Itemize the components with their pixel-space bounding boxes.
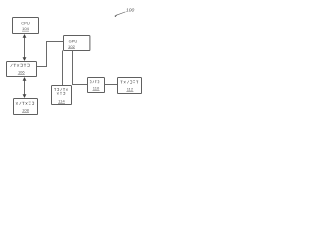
wire A-C double arrow — [23, 34, 27, 61]
wire C-B — [37, 42, 64, 67]
svg-text:114: 114 — [58, 98, 65, 103]
wire B-F — [73, 51, 88, 85]
wire B-E — [62, 51, 64, 86]
box D : main memory 108 — [14, 99, 38, 115]
wire F-G — [105, 84, 118, 86]
svg-text:102: 102 — [68, 44, 75, 49]
box A : CPU 104 — [13, 18, 39, 34]
svg-text:106: 106 — [18, 70, 25, 75]
svg-text:110: 110 — [93, 85, 100, 90]
svg-text:100: 100 — [126, 7, 134, 13]
svg-text:CPU: CPU — [21, 21, 30, 26]
box C : northbridge 106 — [7, 62, 37, 77]
svg-text:112: 112 — [127, 86, 134, 91]
box G : display 112 — [118, 78, 142, 94]
svg-text:108: 108 — [22, 108, 29, 113]
label 100 with lead arrow — [114, 7, 134, 17]
box E : texture memory 114 — [52, 86, 72, 105]
wire C-D double arrow — [23, 77, 27, 98]
box F : battery 110 — [88, 78, 105, 93]
svg-text:104: 104 — [22, 26, 29, 31]
box B : GPU 102 — [64, 36, 90, 51]
